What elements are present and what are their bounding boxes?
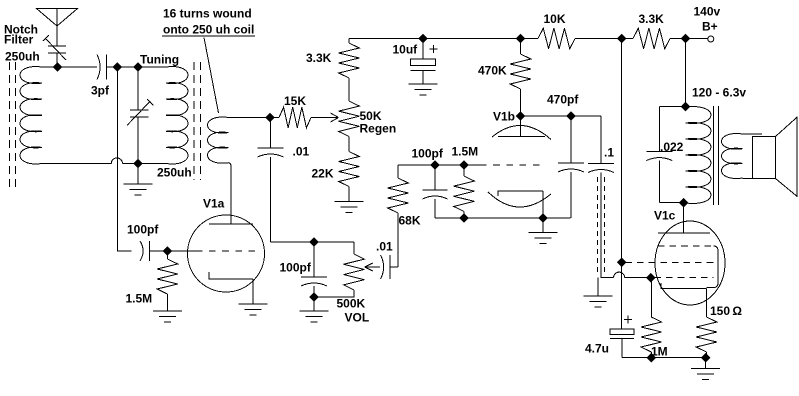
wire screen feed [621, 39, 623, 330]
svg-text:250uh: 250uh [5, 50, 40, 64]
wire vol pot bottom [314, 290, 354, 297]
capacitor 3pf [97, 55, 100, 80]
plus sign 4.7u [624, 315, 632, 323]
node antenna junction [53, 62, 63, 72]
node B+ out [681, 34, 691, 44]
wire B+ to transformer [685, 39, 687, 107]
capacitor 100pf vol [301, 242, 327, 297]
tube V1b envelope bottom arc [488, 192, 551, 207]
transformer core [714, 106, 719, 205]
tube V1c control grid dashed [655, 277, 714, 279]
tube V1a grid dashed [209, 250, 255, 252]
node tank bottom [133, 159, 143, 169]
node vol bottom [309, 292, 319, 302]
ground V1a cathode [239, 304, 268, 315]
node 3pf junction [112, 62, 122, 72]
variable capacitor notch filter [48, 46, 66, 67]
svg-text:100pf: 100pf [412, 147, 444, 161]
tube V1c screen grid dashed [626, 261, 714, 263]
resistor 15K [279, 107, 311, 128]
wire 3pf to tuning junction [107, 66, 167, 68]
wire tank bottom [42, 163, 111, 165]
wire V1b bottom [435, 217, 571, 219]
wire grid node to 1.5M [166, 251, 168, 259]
svg-text:.1: .1 [604, 146, 614, 160]
capacitor .022 [646, 107, 672, 203]
svg-text:Tuning: Tuning [140, 53, 179, 67]
wire secondary to speaker [743, 134, 763, 179]
shield dashed [598, 177, 605, 272]
capacitor 10uf electrolytic [422, 39, 424, 60]
svg-text:.022: .022 [660, 140, 684, 154]
ground 150 ohm [691, 358, 720, 380]
callout line [204, 38, 219, 114]
wire antenna lead [56, 26, 58, 46]
svg-text:470pf: 470pf [547, 93, 579, 107]
ground tank [124, 164, 153, 195]
svg-text:10uf: 10uf [393, 43, 419, 57]
core tuning coil dashed [194, 62, 201, 180]
tube V1a grid wire [167, 250, 202, 252]
inductor tickler 16 turns [208, 117, 229, 163]
svg-text:500K: 500K [337, 297, 366, 311]
node screen rail [617, 34, 627, 44]
resistor 1M [641, 317, 662, 352]
core notch coil dashed [10, 62, 16, 192]
terminal B+ [708, 36, 714, 42]
svg-text:3.3K: 3.3K [639, 12, 665, 26]
ground 10uf [409, 70, 438, 95]
capacitor 470pf [558, 116, 584, 218]
underline [162, 35, 255, 37]
svg-text:onto 250 uh coil: onto 250 uh coil [163, 23, 254, 37]
ground shield [584, 278, 613, 307]
tube V1b grid dashed [480, 164, 546, 166]
svg-text:16 turns wound: 16 turns wound [163, 7, 252, 21]
wire V1b grid [398, 164, 480, 166]
wire 50K to 22K [348, 137, 350, 152]
tube V1a plate [209, 163, 253, 224]
svg-text:.01: .01 [293, 145, 310, 159]
resistor 10K [538, 28, 575, 49]
resistor 1.5M V1b [454, 176, 475, 211]
svg-text:4.7u: 4.7u [585, 342, 609, 356]
wire B+ rail [349, 38, 708, 40]
wire tank bottom right [123, 163, 167, 165]
wire .022 bottom to plate node [659, 202, 683, 204]
inductor transformer secondary [722, 134, 743, 179]
wire hop over grid line [111, 158, 122, 164]
ground 22K [335, 187, 364, 213]
svg-text:.01: .01 [376, 240, 393, 254]
svg-text:3.3K: 3.3K [306, 51, 332, 65]
capacitor 100pf grid [140, 241, 143, 261]
wire 1.5M2 leads [463, 165, 465, 218]
potentiometer 50K Regen [339, 101, 360, 136]
resistor 22K [339, 152, 360, 187]
wire shielded grid lead [601, 173, 614, 278]
resistor 3.3K out [633, 28, 670, 49]
node V1c plate [679, 198, 689, 208]
node 1.5M2 top [459, 160, 469, 170]
svg-text:150 Ω: 150 Ω [710, 304, 742, 318]
wire wiper cap up to 68K [390, 213, 398, 267]
wire hop to grid node [625, 277, 651, 279]
svg-text:68K: 68K [399, 214, 421, 228]
node tuning top [133, 62, 143, 72]
node 1.5M2 bottom [459, 213, 469, 223]
resistor 1.5M grid leak [157, 259, 178, 294]
node V1b plate [516, 111, 526, 121]
capacitor .01 regen [258, 118, 284, 243]
svg-text:B+: B+ [702, 20, 718, 34]
svg-text:V1c: V1c [654, 209, 676, 223]
wire tank top left [42, 66, 97, 68]
wire 470K leads [520, 39, 522, 117]
svg-text:VOL: VOL [345, 311, 370, 325]
tube V1a envelope [188, 215, 265, 292]
node V1c screen [617, 257, 627, 267]
svg-text:1.5M: 1.5M [126, 292, 153, 306]
wire hop over screen line [614, 272, 625, 278]
resistor 3.3K regen top [339, 43, 360, 78]
node 150 ohm bottom [701, 353, 711, 363]
tube V1c suppressor grid dashed [658, 245, 714, 247]
node V1a grid [163, 246, 173, 256]
wire 3pf junction down to 100pf [117, 67, 131, 251]
svg-text:V1b: V1b [493, 110, 515, 124]
svg-text:Regen: Regen [360, 122, 397, 136]
svg-text:3pf: 3pf [91, 84, 110, 98]
node V1b cathode [538, 213, 548, 223]
node 1M bottom [646, 353, 656, 363]
inductor 250uh notch coil [20, 67, 42, 164]
wire 3.3K to 50K [348, 78, 350, 101]
node 10uf rail [418, 34, 428, 44]
ground vol [300, 297, 329, 322]
svg-text:120 - 6.3v: 120 - 6.3v [692, 86, 746, 100]
ground V1b cathode [529, 218, 558, 243]
wire regen .01 to vol pot [271, 242, 355, 254]
wire to .022 [659, 106, 685, 108]
resistor 68K [388, 178, 409, 213]
resistor 150 ohm [696, 317, 717, 352]
tube V1b envelope top arc [492, 125, 551, 139]
wire 1M leads [650, 278, 652, 358]
tube V1b cathode [498, 191, 543, 218]
tube V1b plate [498, 116, 545, 137]
svg-text:100pf: 100pf [280, 261, 312, 275]
speaker [753, 137, 776, 179]
capacitor .01 vol wiper [381, 255, 384, 279]
svg-text:22K: 22K [312, 167, 334, 181]
capacitor 4.7u electrolytic [610, 329, 634, 335]
wire V1b plate to coupling caps [521, 116, 602, 164]
svg-text:15K: 15K [284, 94, 306, 108]
ground 1.5M [153, 294, 182, 322]
antenna [37, 9, 78, 27]
node tickler 15K junction [265, 113, 275, 123]
svg-text:Filter: Filter [4, 33, 34, 47]
svg-text:10K: 10K [544, 12, 566, 26]
tube V1c plate [658, 203, 710, 233]
wire tickler top [229, 117, 271, 119]
inductor transformer primary [686, 107, 712, 204]
potentiometer 500K VOL [344, 254, 365, 290]
wire vol wiper arrow [365, 263, 380, 271]
node 470K rail [516, 34, 526, 44]
node V1c grid [646, 273, 656, 283]
node transformer top [681, 102, 691, 112]
wire 68K top [397, 165, 399, 178]
node 100pf vol top [309, 237, 319, 247]
svg-text:1.5M: 1.5M [452, 145, 479, 159]
node 470pf top [566, 111, 576, 121]
svg-text:V1a: V1a [203, 197, 225, 211]
tube V1c envelope [655, 221, 725, 305]
wire 100pf to grid node [150, 250, 168, 252]
svg-text:140v: 140v [694, 5, 721, 19]
node 100pf2 top [430, 160, 440, 170]
svg-text:250uh: 250uh [157, 166, 192, 180]
capacitor 100pf V1b [423, 165, 448, 218]
plus sign 10uf [429, 45, 437, 53]
wire 3.3K top lead [348, 39, 350, 44]
wire 15K lead [270, 117, 279, 119]
wire to regen wiper arrow [311, 113, 339, 122]
tube V1c cathode [661, 283, 707, 317]
capacitor .1 [588, 163, 614, 165]
wire V1c bottom rail [622, 357, 707, 359]
tube V1a cathode [209, 272, 253, 304]
svg-text:100pf: 100pf [127, 223, 159, 237]
tube V1c suppressor to cathode tie [707, 246, 719, 288]
wire 150 ohm bottom lead [706, 352, 708, 358]
svg-text:470K: 470K [478, 64, 507, 78]
variable capacitor tuning [130, 67, 148, 164]
inductor 250uh tuning coil [166, 67, 188, 164]
resistor 470K [510, 54, 531, 89]
